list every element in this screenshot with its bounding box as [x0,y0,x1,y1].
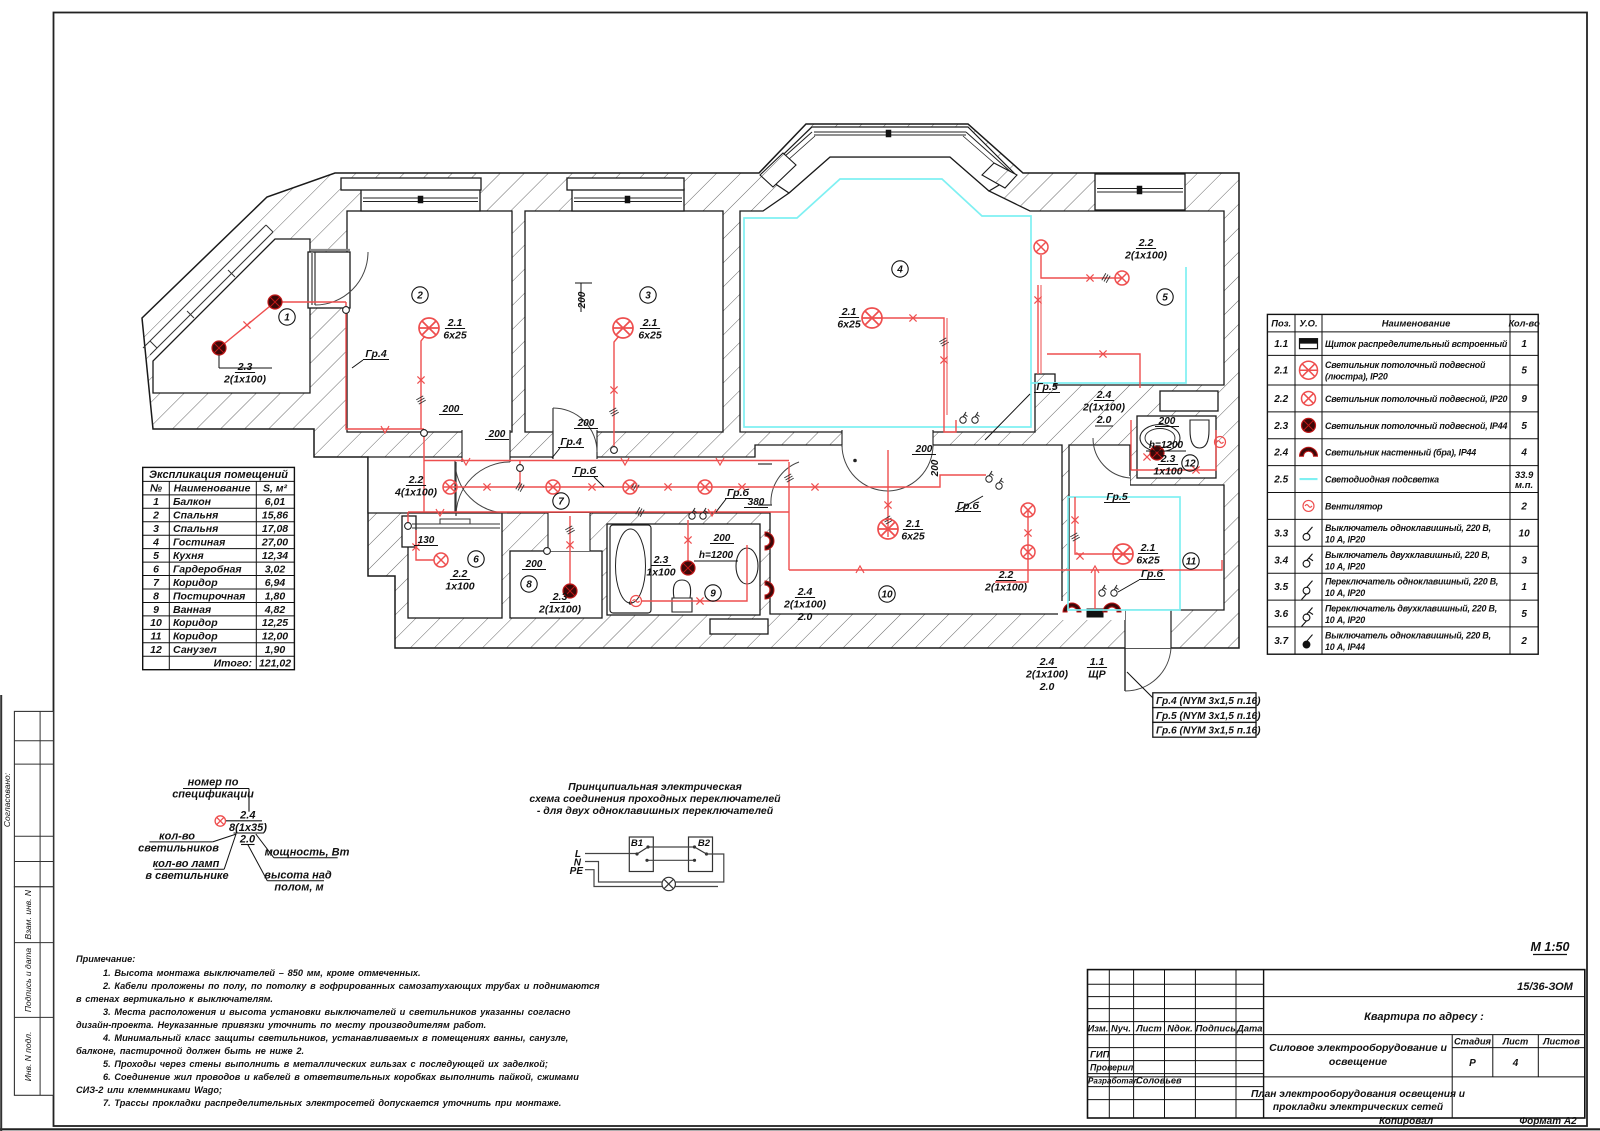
svg-text:PE: PE [570,866,584,877]
svg-text:10 А, IP20: 10 А, IP20 [1325,534,1365,544]
sconces at entrance [1063,603,1081,612]
svg-text:3: 3 [1521,555,1527,566]
wire drop to ShchR [1094,570,1096,609]
svg-text:6х25: 6х25 [837,319,861,331]
svg-text:10: 10 [150,617,162,629]
svg-text:схема соединения проходных пер: схема соединения проходных переключателе… [529,793,781,805]
svg-text:5: 5 [1162,293,1168,304]
svg-text:Гостиная: Гостиная [173,537,225,549]
svg-text:Вентилятор: Вентилятор [1325,501,1383,511]
svg-text:27,00: 27,00 [261,537,288,549]
svg-text:Разработал: Разработал [1088,1077,1138,1086]
svg-text:Кол-во: Кол-во [1508,318,1540,329]
svg-text:2(1х100): 2(1х100) [1025,669,1069,681]
svg-text:2.5: 2.5 [1273,475,1288,486]
svg-text:12,25: 12,25 [262,617,288,629]
window niche room 2 [361,189,480,211]
svg-text:2. Кабели проложены по полу, п: 2. Кабели проложены по полу, по потолку … [102,981,600,991]
svg-text:17,08: 17,08 [262,523,288,535]
svg-text:3.4: 3.4 [1274,555,1288,566]
nook with switch left of room 6 [402,516,416,547]
toilet room 9 [672,580,692,612]
svg-text:6х25: 6х25 [443,330,467,342]
svg-text:Лист: Лист [1502,1037,1529,1047]
wire L [585,853,637,855]
bay glazing lines [814,131,966,133]
svg-text:В2: В2 [698,838,711,849]
svg-text:8(1х35): 8(1х35) [229,822,267,834]
svg-text:6: 6 [153,563,159,575]
wall outline: apartment outer contour, hatched [142,124,1239,648]
svg-text:Nуч.: Nуч. [1111,1024,1131,1034]
svg-text:Светильник потолочный подвесно: Светильник потолочный подвесной, IP44 [1325,421,1507,431]
svg-text:План электрооборудования освещ: План электрооборудования освещения и [1251,1088,1466,1100]
wire room8 lamp [569,516,571,584]
svg-text:Гр.6 (NYM 3х1,5 п.16): Гр.6 (NYM 3х1,5 п.16) [1156,726,1261,737]
svg-text:4(1х100): 4(1х100) [394,487,438,499]
wire lower corridor line to entrance [789,560,1222,570]
svg-text:4: 4 [896,265,903,276]
svg-text:Инв. N подл.: Инв. N подл. [23,1032,33,1082]
svg-text:высота над: высота над [264,870,332,882]
svg-text:6х25: 6х25 [1136,555,1160,567]
wire corridor lamps line [443,475,986,487]
svg-text:в стенах вертикально к выключа: в стенах вертикально к выключателям. [76,994,273,1004]
wire room11 lamps vertical [995,509,1028,582]
svg-text:11: 11 [151,631,162,643]
wire balcony chain [219,302,346,348]
wire room6 [416,530,434,560]
svg-text:200: 200 [915,444,933,455]
svg-text:1: 1 [153,496,159,508]
svg-text:Санузел: Санузел [173,644,217,656]
door bathroom 9 [771,462,799,505]
switch B2 [689,837,713,872]
svg-text:3: 3 [153,523,159,535]
wire balcony switch drop [346,302,424,429]
svg-text:ГИП: ГИП [1090,1050,1110,1061]
svg-text:10: 10 [881,590,893,601]
svg-text:9: 9 [1521,394,1527,405]
svg-text:12,34: 12,34 [262,550,288,562]
wire room11 center lamp [1075,497,1116,554]
svg-text:Наименование: Наименование [174,483,251,495]
svg-text:СИЗ-2 или клеммниками Wago;: СИЗ-2 или клеммниками Wago; [76,1085,222,1095]
svg-text:м.п.: м.п. [1515,480,1533,491]
svg-text:2(1х100): 2(1х100) [1124,250,1168,262]
svg-text:Спальня: Спальня [173,510,218,522]
svg-text:Согласовано:: Согласовано: [2,772,12,827]
page edge artifacts [0,1128,1600,1130]
svg-text:2.4: 2.4 [1039,656,1055,668]
svg-text:6х25: 6х25 [638,330,662,342]
svg-text:Nдок.: Nдок. [1167,1024,1192,1034]
svg-text:ЩР: ЩР [1088,669,1106,681]
entrance door opening [1125,610,1171,648]
luminaire 2.2 room6 [434,553,448,567]
svg-text:1,90: 1,90 [265,644,286,656]
svg-text:2: 2 [152,510,159,522]
svg-text:Гр.4 (NYM 3х1,5 п.16): Гр.4 (NYM 3х1,5 п.16) [1156,696,1261,707]
svg-text:1. Высота монтажа выключателей: 1. Высота монтажа выключателей – 850 мм,… [103,968,421,978]
svg-text:прокладки электрических сетей: прокладки электрических сетей [1273,1102,1444,1113]
niche under bathroom 9 [710,619,768,634]
svg-text:200: 200 [713,533,731,544]
bathroom 9 interior [607,524,760,615]
wire corridor vertical to lower line [788,462,790,570]
svg-text:3. Места расположения и высота: 3. Места расположения и высота установки… [103,1007,571,1017]
svg-text:Ванная: Ванная [173,604,211,616]
entrance wall recess [1058,601,1125,620]
door room 3 [552,408,554,452]
svg-text:кол-во: кол-во [159,831,195,843]
svg-text:Переключатель двухклавишный, 2: Переключатель двухклавишный, 220 В, [1325,604,1497,614]
svg-text:2.2: 2.2 [998,569,1014,581]
svg-text:4: 4 [1512,1058,1519,1069]
wire room2 lamp drop [421,336,425,429]
svg-text:1х100: 1х100 [445,581,474,593]
svg-text:12: 12 [150,644,162,656]
svg-text:2.0: 2.0 [797,611,813,623]
svg-text:6х25: 6х25 [901,531,925,543]
room 6 interior [408,513,502,618]
svg-text:2.3: 2.3 [1273,421,1288,432]
svg-text:Постирочная: Постирочная [173,590,245,602]
balcony door opening to room 2 zone [308,252,350,308]
corridor 7+10 interior [368,445,1062,614]
svg-text:2(1х100): 2(1х100) [223,374,267,386]
callout lamp [215,816,225,826]
svg-text:Стадия: Стадия [1454,1037,1492,1047]
svg-text:Светильник потолочный подвесно: Светильник потолочный подвесной, IP20 [1325,394,1507,404]
switch pair room11 [1099,585,1107,596]
svg-text:4: 4 [1520,448,1527,459]
svg-text:2.3: 2.3 [552,591,568,603]
svg-text:380: 380 [748,497,765,508]
svg-text:№: № [150,483,162,495]
svg-text:1.1: 1.1 [1090,656,1105,668]
luminaire 2.2 corridor a [443,480,457,494]
svg-text:8: 8 [526,580,532,591]
room 11 interior [1069,445,1224,610]
svg-text:- для двух одноклавишных перек: - для двух одноклавишных переключателей [537,805,774,817]
svg-text:2(1х100): 2(1х100) [538,604,582,616]
vent bathroom12 [1215,437,1226,448]
svg-text:2: 2 [1520,501,1527,512]
svg-text:1: 1 [1521,339,1527,350]
svg-text:Коридор: Коридор [173,631,218,643]
luminaire 2.1 room4 [862,308,882,328]
svg-text:полом, м: полом, м [274,882,323,894]
svg-text:5. Проходы через стены выполни: 5. Проходы через стены выполнить в метал… [103,1059,548,1069]
svg-text:7: 7 [558,497,564,508]
svg-text:2(1х100): 2(1х100) [783,599,827,611]
svg-text:1х100: 1х100 [1153,466,1182,478]
wire corridor switch line [408,511,789,513]
svg-text:Гр.б: Гр.б [957,500,980,512]
svg-text:8: 8 [153,590,159,602]
svg-text:Итого:: Итого: [214,658,252,670]
wire lamp line connector [519,461,521,487]
svg-text:h=1200: h=1200 [1149,440,1184,451]
svg-text:10 А, IP20: 10 А, IP20 [1325,615,1365,625]
wire bathroom9 [687,520,689,561]
svg-text:В1: В1 [631,838,643,849]
counter bathroom 12 [1160,391,1218,411]
wire room5 bottom [1047,354,1140,388]
leader balcony [218,355,220,368]
svg-text:Лист: Лист [1135,1024,1162,1034]
svg-text:200: 200 [442,404,460,415]
balcony glazing window [143,225,266,348]
svg-text:121,02: 121,02 [259,658,291,670]
sink bathroom 12 [1140,425,1180,452]
svg-text:2.3: 2.3 [237,361,253,373]
bathtub room 9 [610,525,651,613]
svg-text:11: 11 [1186,557,1197,568]
bay pier hatch left [760,153,796,187]
svg-text:1х100: 1х100 [646,567,675,579]
svg-text:3.5: 3.5 [1274,582,1288,593]
svg-text:Изм.: Изм. [1088,1024,1109,1034]
svg-text:1,80: 1,80 [265,590,286,602]
svg-text:2.0: 2.0 [239,834,256,846]
wire room3 lamp drop [614,336,619,447]
svg-text:3.6: 3.6 [1274,609,1288,620]
svg-text:200: 200 [577,418,595,429]
svg-text:Гр.б: Гр.б [1141,568,1164,580]
luminaire 2.1 corridor10 [878,519,898,539]
svg-text:2.1: 2.1 [905,518,921,530]
svg-text:15,86: 15,86 [262,510,288,522]
svg-text:2.2: 2.2 [1273,394,1288,405]
svg-text:дизайн-проекта. Неуказанные пр: дизайн-проекта. Неуказанные привязки уто… [76,1020,486,1030]
svg-text:1.1: 1.1 [1274,339,1288,350]
luminaire 2.3 bathroom9 [681,561,695,575]
svg-text:Принципиальная электрическая: Принципиальная электрическая [568,781,742,793]
svg-text:200: 200 [488,429,506,440]
room 8 interior [510,551,602,618]
svg-text:200: 200 [1158,416,1176,427]
svg-text:М 1:50: М 1:50 [1531,940,1570,954]
luminaire 2.1 room2 [419,318,439,338]
vent bathroom9 [631,596,642,607]
switch room8 [544,548,551,555]
luminaire 2.2 r45a [1034,240,1048,254]
svg-text:15/36-ЗОМ: 15/36-ЗОМ [1517,981,1574,993]
wire PE [585,870,718,887]
svg-text:Гр.4: Гр.4 [560,436,582,448]
svg-text:Спальня: Спальня [173,523,218,535]
svg-text:Дата: Дата [1236,1024,1262,1034]
svg-text:Гр.б: Гр.б [574,465,597,477]
LED strip room 11 [1068,497,1180,610]
leader lines for group labels [985,394,1030,440]
svg-text:6,01: 6,01 [265,496,286,508]
balcony door leaf+arc [314,252,316,305]
svg-text:Гр.4: Гр.4 [365,348,387,360]
svg-text:Выключатель одноклавишный, 220: Выключатель одноклавишный, 220 В, [1325,631,1491,641]
svg-text:Гардеробная: Гардеробная [173,563,242,575]
svg-text:6: 6 [473,555,479,566]
svg-text:Наименование: Наименование [1382,318,1451,329]
wire room2 to corridor [423,429,425,512]
Gr.4/5/6 cable boxes [1153,693,1256,708]
svg-text:2.3: 2.3 [653,554,669,566]
wire rooms45 ceiling chain [1041,255,1122,278]
bathroom 12 interior [1137,416,1216,478]
room number circles [279,309,295,325]
svg-text:4: 4 [152,537,159,549]
wire N [585,862,662,883]
svg-text:Подпись: Подпись [1196,1024,1236,1034]
toilet bathroom 12 [1190,420,1209,448]
explication table [143,467,295,669]
luminaire 2.1 room11 [1113,544,1133,564]
svg-text:Взам. инв. N: Взам. инв. N [23,889,33,939]
svg-text:Выключатель одноклавишный, 220: Выключатель одноклавишный, 220 В, [1325,523,1491,533]
switch B1 [629,837,653,872]
svg-text:номер по: номер по [188,777,239,789]
svg-text:Квартира по адресу :: Квартира по адресу : [1364,1011,1484,1023]
LED strip room 5 [1031,267,1186,383]
door opening bathroom9 [758,464,772,505]
svg-text:спецификации: спецификации [172,789,254,801]
svg-text:200: 200 [930,459,941,477]
svg-text:2.2: 2.2 [452,568,468,580]
svg-text:5: 5 [153,550,159,562]
svg-text:2.4: 2.4 [1096,389,1112,401]
svg-text:2.1: 2.1 [447,317,463,329]
wire corridor10 lamp [887,450,889,537]
window niche room 5 [1095,174,1185,210]
wire room4 lamp [882,318,944,415]
svg-text:Гр.5 (NYM 3х1,5 п.16): Гр.5 (NYM 3х1,5 п.16) [1156,711,1261,722]
svg-text:5: 5 [1521,421,1527,432]
luminaire 2.2 corridor c [623,480,637,494]
svg-text:Гр.б: Гр.б [727,487,750,499]
svg-text:2.1: 2.1 [642,317,658,329]
svg-text:Поз.: Поз. [1271,318,1291,329]
luminaire 2.2 corridor b [546,480,560,494]
wire corridor upper line [424,460,789,462]
svg-text:2(1х100): 2(1х100) [984,582,1028,594]
room 8 door opening [548,513,590,551]
wire bathroom12 loop [1131,430,1216,470]
svg-text:9: 9 [153,604,159,616]
room 2 interior [347,211,512,432]
svg-text:4. Минимальный класс защиты св: 4. Минимальный класс защиты светильников… [102,1033,568,1043]
svg-text:У.О.: У.О. [1299,318,1317,329]
svg-text:3,02: 3,02 [265,563,286,575]
svg-text:2.4: 2.4 [797,586,813,598]
luminaire 2.2 room11 b [1021,545,1035,559]
svg-text:4,82: 4,82 [264,604,286,616]
svg-text:Р: Р [1469,1058,1476,1069]
luminaire 2.2 room11 a [1021,503,1035,517]
svg-text:Светильник настенный (бра), IP: Светильник настенный (бра), IP44 [1325,448,1476,458]
svg-text:в светильнике: в светильнике [145,870,228,882]
svg-text:200: 200 [577,291,588,309]
luminaire 2.3 room8 [563,584,577,598]
svg-text:кол-во ламп: кол-во ламп [153,858,220,870]
svg-text:2.3: 2.3 [1160,453,1176,465]
svg-text:Экспликация помещений: Экспликация помещений [149,469,288,481]
svg-text:12: 12 [1184,459,1196,470]
door room 2 to corridor [456,462,510,516]
balcony slab lines above rooms 2,3 [341,178,481,190]
bay pier hatch right [982,163,1017,188]
svg-text:Балкон: Балкон [173,496,212,508]
svg-text:2.4: 2.4 [1273,448,1288,459]
svg-text:Соловьев: Соловьев [1136,1076,1182,1086]
left stamp boxes group1 [14,711,53,886]
svg-text:10: 10 [1519,528,1531,539]
title block [1088,970,1585,1118]
svg-text:10 А, IP20: 10 А, IP20 [1325,561,1365,571]
svg-text:Выключатель двухклавишный, 220: Выключатель двухклавишный, 220 В, [1325,550,1490,560]
schematic lamp [662,877,675,890]
switch pair pier [960,412,968,423]
svg-text:2.0: 2.0 [1039,681,1055,693]
door opening bathroom12 [1092,476,1130,487]
svg-text:200: 200 [525,559,543,570]
svg-text:12,00: 12,00 [262,631,288,643]
sink room 9 [736,548,758,584]
svg-text:2.4: 2.4 [239,810,255,822]
legend table [1267,314,1538,654]
luminaire 2.3 bathroom12 [1150,446,1164,460]
double door room 4 to corridor 10 [842,445,888,491]
door opening room3-corridor [553,430,597,459]
room 1 balcony interior [153,239,310,393]
bay window band room 4 (glazed, white) [762,127,1016,193]
ShchR distribution panel [1087,609,1103,617]
luminaire 2.3 balcony b [212,341,226,355]
svg-text:2.1: 2.1 [841,306,857,318]
svg-text:2(1х100): 2(1х100) [1082,402,1126,414]
wardrobe room 6 [412,523,500,525]
wire room4 jog to switches [944,415,956,432]
svg-text:3.3: 3.3 [1274,528,1288,539]
svg-text:7. Трассы прокладки распредели: 7. Трассы прокладки распределительных эл… [103,1098,561,1108]
svg-text:мощность, Вт: мощность, Вт [265,847,350,859]
svg-text:светильников: светильников [138,843,219,855]
svg-text:2.2: 2.2 [408,474,424,486]
window niche room 3 [572,189,684,211]
wire bathroom9 low chain [642,545,747,601]
svg-text:2: 2 [1520,636,1527,647]
svg-text:Примечание:: Примечание: [76,954,135,964]
svg-text:3.7: 3.7 [1274,636,1288,647]
svg-text:5: 5 [1521,366,1527,377]
svg-text:Кухня: Кухня [173,550,204,562]
luminaire 2.2 r45b [1115,271,1129,285]
svg-text:1: 1 [1521,582,1527,593]
svg-text:Проверил: Проверил [1090,1063,1134,1073]
svg-text:Коридор: Коридор [173,617,218,629]
svg-text:Светильник потолочный подвесно: Светильник потолочный подвесной [1325,360,1486,370]
switch room6 [405,523,412,530]
svg-text:Коридор: Коридор [173,577,218,589]
door opening room4-corridor10 [842,430,933,447]
svg-text:2.1: 2.1 [1273,366,1288,377]
svg-text:S, м²: S, м² [263,483,288,495]
svg-text:Гр.5: Гр.5 [1106,491,1128,503]
svg-text:3: 3 [645,291,651,302]
LED strip room 4 [744,179,1031,427]
svg-text:1: 1 [284,313,290,324]
